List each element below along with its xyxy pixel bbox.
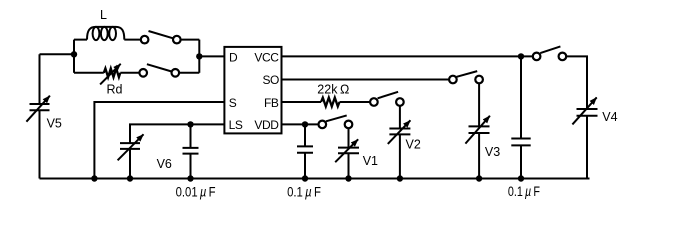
svg-text:VCC: VCC (254, 51, 279, 65)
svg-text:S: S (229, 96, 237, 110)
svg-text:L: L (100, 8, 107, 22)
svg-text:LS: LS (229, 118, 243, 132)
svg-text:V2: V2 (406, 138, 421, 152)
svg-text:D: D (229, 51, 238, 65)
svg-text:V5: V5 (47, 117, 62, 131)
svg-text:V1: V1 (363, 154, 378, 168)
svg-text:VDD: VDD (254, 118, 279, 132)
svg-text:FB: FB (264, 96, 279, 110)
svg-text:0.01 µ F: 0.01 µ F (176, 184, 216, 199)
svg-text:V4: V4 (602, 110, 617, 124)
svg-text:0.1 µ F: 0.1 µ F (508, 184, 540, 199)
svg-text:V3: V3 (485, 145, 500, 159)
svg-text:SO: SO (262, 73, 279, 87)
svg-text:0.1 µ F: 0.1 µ F (287, 185, 321, 200)
svg-text:V6: V6 (157, 157, 172, 171)
svg-text:22k Ω: 22k Ω (317, 82, 349, 96)
svg-text:Rd: Rd (107, 83, 123, 97)
